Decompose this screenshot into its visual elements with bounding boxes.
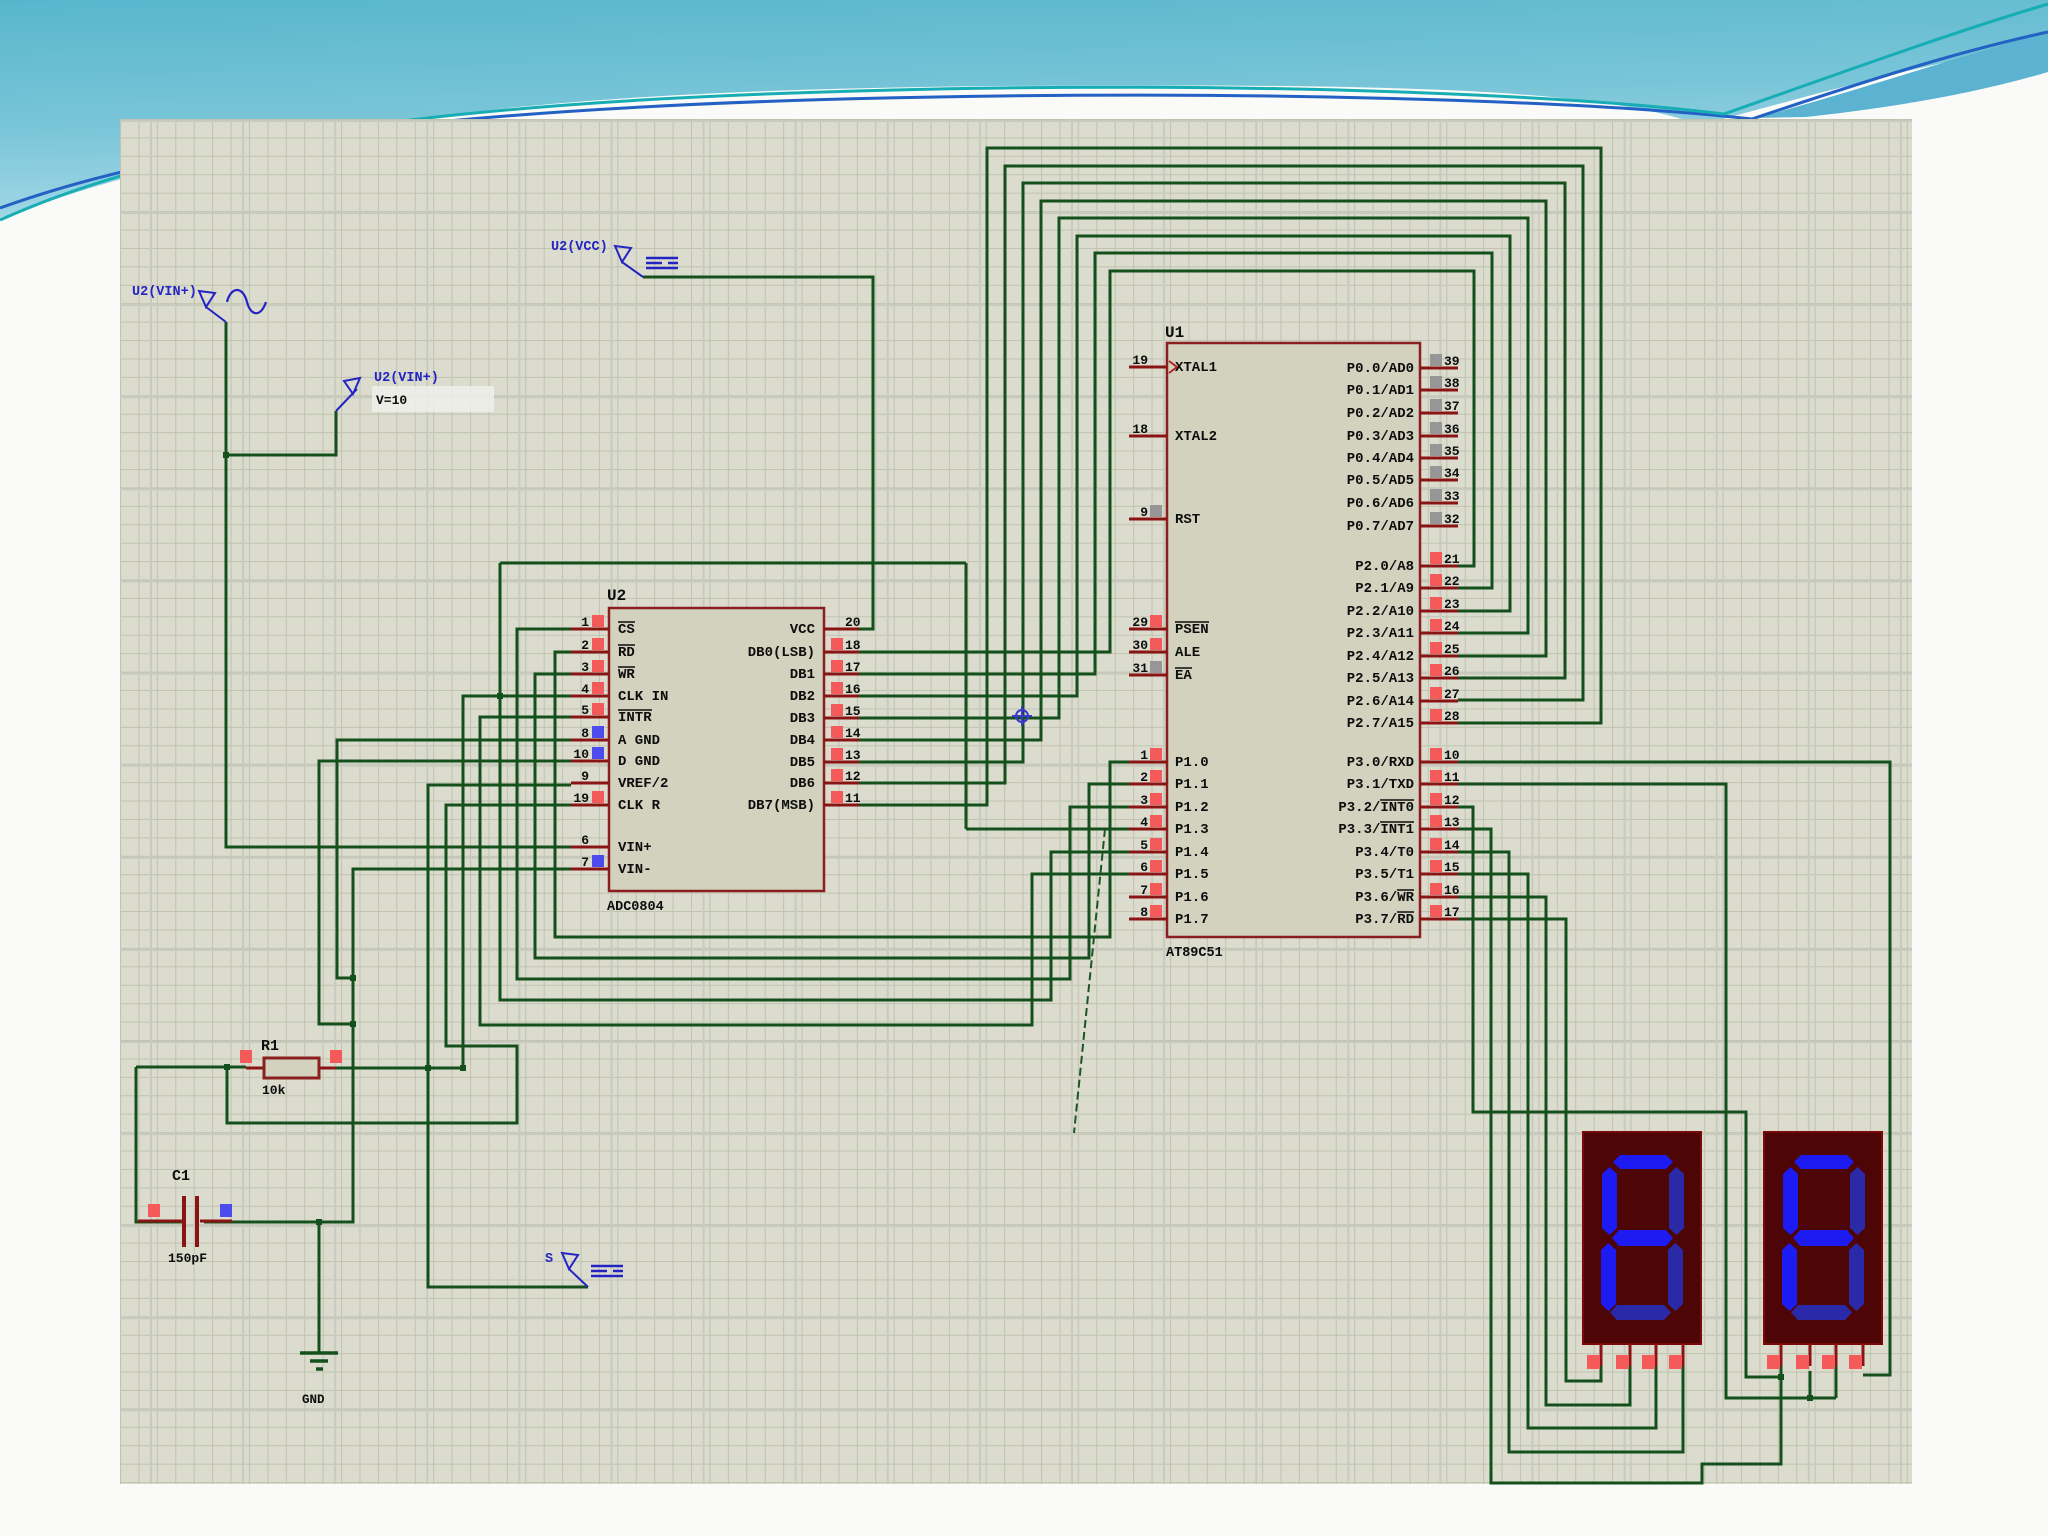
DS1 pins	[1601, 1344, 1683, 1366]
7-segment display DS1 body	[1583, 1132, 1701, 1344]
U1 pin 19 XTAL1	[1129, 353, 1217, 376]
U1 pin 5 P1.4	[1129, 838, 1209, 861]
U1 pin 26 P2.5/A13	[1347, 664, 1460, 687]
svg-text:3: 3	[581, 660, 589, 675]
svg-text:9: 9	[1140, 505, 1148, 520]
svg-text:XTAL2: XTAL2	[1175, 429, 1217, 445]
svg-text:WR: WR	[618, 667, 635, 683]
U1 pin 28 P2.7/A15	[1347, 709, 1460, 732]
svg-text:10: 10	[1444, 748, 1460, 763]
wire U1 P3.6 to DS1 pin2	[1458, 897, 1630, 1405]
U2 pin 5 INTR	[571, 703, 652, 726]
svg-text:14: 14	[845, 726, 861, 741]
svg-text:P1.0: P1.0	[1175, 755, 1209, 771]
svg-text:DB7(MSB): DB7(MSB)	[748, 798, 815, 814]
svg-text:34: 34	[1444, 466, 1460, 481]
U2 pin 8 A GND	[571, 726, 660, 749]
wire U2(VCC) terminal to U2 pin20 VCC	[643, 277, 873, 629]
svg-text:28: 28	[1444, 709, 1460, 724]
wire R1 left horizontal	[136, 1066, 246, 1069]
U2 pin 15 DB3	[790, 704, 861, 727]
wire U2 pin8 AGND jog to ground net	[337, 740, 571, 978]
wire U2 DB0 to U1 P2.0	[859, 271, 1474, 652]
svg-text:13: 13	[1444, 815, 1460, 830]
U2 pin 3 WR	[571, 660, 635, 683]
svg-text:S: S	[545, 1252, 553, 1267]
svg-text:13: 13	[845, 748, 861, 763]
decor swoosh band	[1756, 32, 2048, 118]
svg-text:17: 17	[845, 660, 861, 675]
terminal S	[562, 1253, 623, 1287]
svg-text:P0.1/AD1: P0.1/AD1	[1347, 383, 1414, 399]
svg-text:29: 29	[1132, 615, 1148, 630]
svg-text:18: 18	[1132, 422, 1148, 437]
svg-text:XTAL1: XTAL1	[1175, 360, 1217, 376]
svg-text:C1: C1	[172, 1168, 190, 1185]
svg-text:P3.7/RD: P3.7/RD	[1355, 912, 1414, 928]
svg-text:P1.3: P1.3	[1175, 822, 1209, 838]
svg-text:ADC0804: ADC0804	[607, 900, 664, 915]
terminal U2(VIN+) probe V=10	[372, 386, 494, 412]
wire U1 P3.0 to DS2 pin4	[1458, 762, 1890, 1375]
svg-text:7: 7	[1140, 883, 1148, 898]
U1 pin 32 P0.7/AD7	[1347, 512, 1460, 535]
U1 pin 22 P2.1/A9	[1355, 574, 1460, 597]
svg-text:P2.5/A13: P2.5/A13	[1347, 671, 1414, 687]
svg-text:39: 39	[1444, 354, 1460, 369]
U2 pin 10 D GND	[571, 747, 660, 770]
wire rail bundle row R4 to U1 P1.4	[500, 563, 1129, 1000]
svg-text:CLK R: CLK R	[618, 798, 661, 814]
svg-text:DB0(LSB): DB0(LSB)	[748, 645, 815, 661]
svg-text:P2.4/A12: P2.4/A12	[1347, 649, 1414, 665]
svg-text:P2.0/A8: P2.0/A8	[1355, 559, 1414, 575]
IC U1 AT89C51 body	[1167, 343, 1420, 937]
U2 pin 17 DB1	[790, 660, 861, 683]
wire U1 P3.5 to DS1 pin3	[1458, 874, 1656, 1428]
wire U1 P3.1 to DS2 pin3	[1458, 784, 1836, 1398]
svg-text:INTR: INTR	[618, 710, 652, 726]
U1 pin 24 P2.3/A11	[1347, 619, 1460, 642]
wire horizontal into U1 P1.3	[966, 828, 1129, 831]
U2 pin 16 DB2	[790, 682, 861, 705]
U1 pin 16 P3.6/WR	[1355, 883, 1460, 906]
svg-text:20: 20	[845, 615, 861, 630]
U1 pin 31 EA	[1129, 661, 1192, 684]
wire U2 pin5 INTR bundle row R5 to U1 P1.5	[480, 717, 1129, 1025]
U1 pin 15 P3.5/T1	[1355, 860, 1460, 883]
svg-text:DB3: DB3	[790, 711, 815, 727]
decor teal arc	[0, 4, 2048, 220]
svg-text:P2.3/A11: P2.3/A11	[1347, 626, 1414, 642]
svg-text:18: 18	[845, 638, 861, 653]
svg-text:7: 7	[581, 855, 589, 870]
svg-text:EA: EA	[1175, 668, 1192, 684]
svg-text:GND: GND	[302, 1393, 325, 1407]
U1 pin 34 P0.5/AD5	[1347, 466, 1460, 489]
U1 pin 39 P0.0/AD0	[1347, 354, 1460, 377]
svg-text:6: 6	[1140, 860, 1148, 875]
svg-text:P0.6/AD6: P0.6/AD6	[1347, 496, 1414, 512]
U1 pin 29 PSEN	[1129, 615, 1209, 638]
wire U2 DB2 to U1 P2.2	[859, 236, 1510, 696]
U1 pin 37 P0.2/AD2	[1347, 399, 1460, 422]
svg-text:22: 22	[1444, 574, 1460, 589]
svg-text:16: 16	[1444, 883, 1460, 898]
U1 pin 9 RST	[1129, 505, 1200, 528]
U1 pin 3 P1.2	[1129, 793, 1209, 816]
capacitor C1	[138, 1196, 232, 1247]
svg-text:3: 3	[1140, 793, 1148, 808]
svg-text:P3.6/WR: P3.6/WR	[1355, 890, 1414, 906]
wire rail top horizontal y563	[500, 562, 966, 565]
svg-text:26: 26	[1444, 664, 1460, 679]
svg-text:1: 1	[581, 615, 589, 630]
node origin marker	[1012, 706, 1032, 726]
wire down to C1 left	[136, 1067, 183, 1222]
DS2 pins	[1781, 1344, 1863, 1366]
U1 pin 33 P0.6/AD6	[1347, 489, 1460, 512]
svg-text:P2.6/A14: P2.6/A14	[1347, 694, 1414, 710]
wire U2 pin2 RD to U1 P1.0	[555, 652, 1129, 937]
svg-text:4: 4	[581, 682, 589, 697]
wire U1 P3.3 bottom run to DS2 pin1 node	[1458, 829, 1781, 1483]
U1 pin 27 P2.6/A14	[1347, 687, 1460, 710]
svg-text:D GND: D GND	[618, 754, 660, 770]
svg-text:P1.4: P1.4	[1175, 845, 1209, 861]
svg-text:CLK IN: CLK IN	[618, 689, 668, 705]
svg-text:P0.3/AD3: P0.3/AD3	[1347, 429, 1414, 445]
wire U2 DB7 to U1 P2.7	[859, 148, 1601, 805]
svg-text:DB4: DB4	[790, 733, 815, 749]
svg-text:ALE: ALE	[1175, 645, 1200, 661]
U1 pin 25 P2.4/A12	[1347, 642, 1460, 665]
svg-text:37: 37	[1444, 399, 1460, 414]
svg-text:25: 25	[1444, 642, 1460, 657]
svg-text:P2.1/A9: P2.1/A9	[1355, 581, 1414, 597]
svg-text:23: 23	[1444, 597, 1460, 612]
svg-text:DB1: DB1	[790, 667, 815, 683]
svg-text:10: 10	[573, 747, 589, 762]
svg-text:150pF: 150pF	[168, 1251, 207, 1266]
svg-text:8: 8	[581, 726, 589, 741]
svg-text:1: 1	[1140, 748, 1148, 763]
svg-text:30: 30	[1132, 638, 1148, 653]
svg-text:14: 14	[1444, 838, 1460, 853]
U1 pin 2 P1.1	[1129, 770, 1209, 793]
svg-text:10k: 10k	[262, 1083, 286, 1098]
U2 pin 7 VIN-	[571, 855, 652, 878]
XTAL1 clock marker	[1169, 361, 1177, 373]
svg-text:P1.7: P1.7	[1175, 912, 1209, 928]
svg-text:4: 4	[1140, 815, 1148, 830]
svg-text:36: 36	[1444, 422, 1460, 437]
svg-text:5: 5	[1140, 838, 1148, 853]
U2 pin 9 VREF/2	[571, 769, 668, 792]
wire ground branch down to GND symbol	[318, 1222, 321, 1353]
svg-text:P3.3/INT1: P3.3/INT1	[1338, 822, 1414, 838]
svg-text:U2: U2	[607, 587, 626, 605]
wire U1 P3.7 to DS1 pin1	[1458, 919, 1601, 1381]
U1 pin 7 P1.6	[1129, 883, 1209, 906]
svg-text:24: 24	[1444, 619, 1460, 634]
U1 pin 36 P0.3/AD3	[1347, 422, 1460, 445]
U1 pin 38 P0.1/AD1	[1347, 376, 1460, 399]
U2 pin 20 VCC	[790, 615, 861, 638]
svg-text:2: 2	[1140, 770, 1148, 785]
svg-text:AT89C51: AT89C51	[1166, 946, 1223, 961]
wire DS2 pin2 drop to P3.1 run	[1809, 1371, 1812, 1398]
svg-text:15: 15	[1444, 860, 1460, 875]
svg-text:DB2: DB2	[790, 689, 815, 705]
wire source terminal to U2 pin6 VIN+	[226, 322, 571, 847]
svg-text:U2(VCC): U2(VCC)	[551, 240, 608, 255]
U1 pin 23 P2.2/A10	[1347, 597, 1460, 620]
wire diagonal to U1 P1.3	[1074, 829, 1105, 1133]
wire U1 P3.2 over displays to DS2 pin1	[1458, 807, 1781, 1377]
svg-text:RD: RD	[618, 645, 635, 661]
svg-text:P3.4/T0: P3.4/T0	[1355, 845, 1414, 861]
svg-text:P3.1/TXD: P3.1/TXD	[1347, 777, 1414, 793]
7-segment display DS2 body	[1764, 1132, 1882, 1344]
wire U2 pin1 CS to U1 P1.2	[517, 629, 1129, 979]
wire U2 pin10 DGND jog to ground net	[319, 761, 571, 1024]
svg-text:P3.0/RXD: P3.0/RXD	[1347, 755, 1414, 771]
svg-text:DB6: DB6	[790, 776, 815, 792]
svg-text:P1.6: P1.6	[1175, 890, 1209, 906]
wire U2 DB5 to U1 P2.5	[859, 183, 1565, 762]
U2 pin 2 RD	[571, 638, 635, 661]
svg-text:9: 9	[581, 769, 589, 784]
svg-text:P0.0/AD0: P0.0/AD0	[1347, 361, 1414, 377]
svg-text:8: 8	[1140, 905, 1148, 920]
U1 pin 13 P3.3/INT1	[1338, 815, 1459, 838]
wire U2 pin19 CLKR loop to R1 left node	[227, 805, 571, 1123]
svg-text:11: 11	[1444, 770, 1460, 785]
svg-text:R1: R1	[261, 1038, 279, 1055]
U2 pin 18 DB0(LSB)	[748, 638, 861, 661]
svg-text:12: 12	[1444, 793, 1460, 808]
U1 pin 30 ALE	[1129, 638, 1200, 661]
svg-text:VIN-: VIN-	[618, 862, 652, 878]
svg-text:32: 32	[1444, 512, 1460, 527]
wire U2 pin9 VREF/2 down to S terminal	[428, 785, 588, 1287]
U1 pin 8 P1.7	[1129, 905, 1209, 928]
svg-text:16: 16	[845, 682, 861, 697]
svg-text:P2.2/A10: P2.2/A10	[1347, 604, 1414, 620]
svg-text:A GND: A GND	[618, 733, 660, 749]
svg-text:19: 19	[573, 791, 589, 806]
U2 pin 14 DB4	[790, 726, 861, 749]
wire U1 P3.4 to DS1 pin4	[1458, 852, 1683, 1452]
wire U2 DB3 to U1 P2.3	[859, 218, 1528, 718]
svg-text:6: 6	[581, 833, 589, 848]
svg-text:19: 19	[1132, 353, 1148, 368]
DS1 segments	[1601, 1155, 1684, 1320]
svg-text:VREF/2: VREF/2	[618, 776, 668, 792]
decor sky	[0, 0, 2048, 218]
U2 pin 6 VIN+	[571, 833, 652, 856]
wire DS2 pin3 stub drop	[1835, 1366, 1838, 1398]
U1 pin 1 P1.0	[1129, 748, 1209, 771]
U1 pin 10 P3.0/RXD	[1347, 748, 1460, 771]
ground symbol	[300, 1353, 338, 1369]
svg-text:35: 35	[1444, 444, 1460, 459]
U1 pin 17 P3.7/RD	[1355, 905, 1459, 928]
svg-text:38: 38	[1444, 376, 1460, 391]
svg-text:5: 5	[581, 703, 589, 718]
svg-text:12: 12	[845, 769, 861, 784]
svg-text:DB5: DB5	[790, 755, 815, 771]
svg-text:31: 31	[1132, 661, 1148, 676]
svg-text:17: 17	[1444, 905, 1460, 920]
svg-text:U1: U1	[1165, 324, 1184, 342]
wire R1 right pin horizontal	[320, 1067, 463, 1070]
U1 pin 6 P1.5	[1129, 860, 1209, 883]
svg-text:P3.2/INT0: P3.2/INT0	[1338, 800, 1414, 816]
svg-text:P0.7/AD7: P0.7/AD7	[1347, 519, 1414, 535]
svg-text:P0.5/AD5: P0.5/AD5	[1347, 473, 1414, 489]
svg-text:PSEN: PSEN	[1175, 622, 1209, 638]
svg-text:P2.7/A15: P2.7/A15	[1347, 716, 1414, 732]
svg-text:V=10: V=10	[376, 393, 407, 408]
svg-text:P1.1: P1.1	[1175, 777, 1209, 793]
svg-text:27: 27	[1444, 687, 1460, 702]
wire U2 pin4 CLKIN down to R1 right node	[463, 696, 571, 1068]
DS2 segments	[1782, 1155, 1865, 1320]
U1 pin 18 XTAL2	[1129, 422, 1217, 445]
U2 pin 19 CLK R	[571, 791, 661, 814]
terminal U2(VIN+) sine source	[199, 290, 266, 322]
wire U2 DB1 to U1 P2.1	[859, 253, 1492, 674]
svg-text:U2(VIN+): U2(VIN+)	[132, 285, 197, 300]
U1 pin 11 P3.1/TXD	[1347, 770, 1460, 793]
svg-text:2: 2	[581, 638, 589, 653]
decor blue arc	[0, 32, 2048, 208]
wire U2 pin3 WR to U1 P1.1	[535, 674, 1129, 958]
U2 pin 13 DB5	[790, 748, 861, 771]
svg-text:P1.5: P1.5	[1175, 867, 1209, 883]
svg-text:VCC: VCC	[790, 622, 816, 638]
wire vertical x966 down to P1.3 row	[965, 563, 968, 829]
U2 pin 11 DB7(MSB)	[748, 791, 861, 814]
U1 pin 14 P3.4/T0	[1355, 838, 1460, 861]
svg-text:P0.2/AD2: P0.2/AD2	[1347, 406, 1414, 422]
svg-text:U2(VIN+): U2(VIN+)	[374, 371, 439, 386]
U1 pin 4 P1.3	[1129, 815, 1209, 838]
svg-text:P3.5/T1: P3.5/T1	[1355, 867, 1414, 883]
wire U2 DB4 to U1 P2.4	[859, 201, 1546, 740]
svg-text:VIN+: VIN+	[618, 840, 652, 856]
svg-text:11: 11	[845, 791, 861, 806]
svg-text:P1.2: P1.2	[1175, 800, 1209, 816]
U1 pin 35 P0.4/AD4	[1347, 444, 1460, 467]
resistor R1	[240, 1050, 342, 1078]
IC U2 ADC0804 body	[609, 608, 824, 891]
svg-text:RST: RST	[1175, 512, 1200, 528]
svg-text:CS: CS	[618, 622, 635, 638]
U1 pin 21 P2.0/A8	[1355, 552, 1460, 575]
U2 pin 1 CS	[571, 615, 635, 638]
U2 pin 4 CLK IN	[571, 682, 668, 705]
terminal U2(VCC)	[615, 246, 678, 277]
svg-text:15: 15	[845, 704, 861, 719]
wire U2 pin7 VIN- down to C1 right	[204, 869, 571, 1222]
svg-text:21: 21	[1444, 552, 1460, 567]
wire U2 DB6 to U1 P2.6	[859, 166, 1583, 783]
U1 pin 12 P3.2/INT0	[1338, 793, 1459, 816]
svg-text:P0.4/AD4: P0.4/AD4	[1347, 451, 1414, 467]
U2 pin 12 DB6	[790, 769, 861, 792]
wire branch to V=10 probe terminal	[226, 411, 336, 455]
svg-text:33: 33	[1444, 489, 1460, 504]
